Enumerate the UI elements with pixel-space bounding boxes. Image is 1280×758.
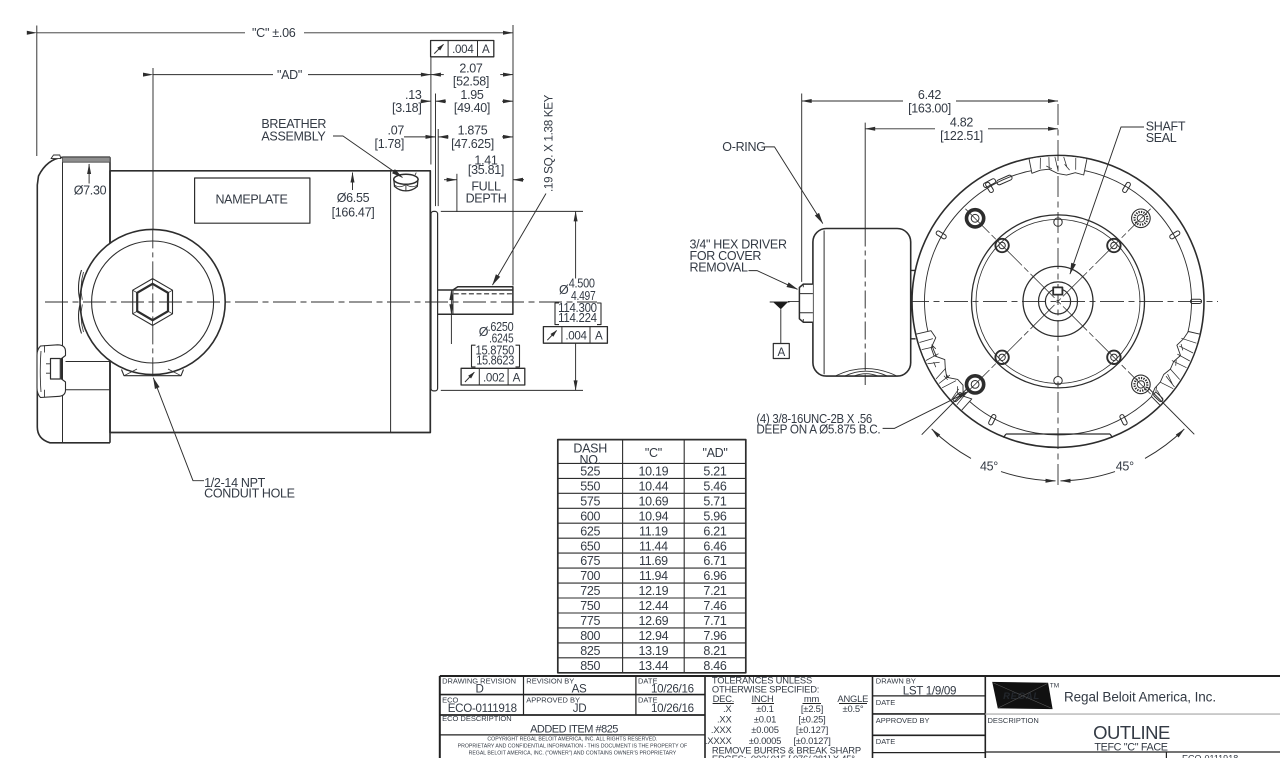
svg-text:12.94: 12.94: [639, 629, 669, 643]
svg-text:550: 550: [580, 479, 600, 493]
fcf perpendicularity top: [431, 41, 494, 57]
tolerance header underlines: [713, 703, 867, 705]
rim vent slots: [935, 182, 1201, 426]
extension line 1.41: [456, 174, 458, 212]
dia 6.55 arrow: [352, 173, 354, 191]
svg-text:7.21: 7.21: [703, 584, 726, 598]
bolt hole leader: [883, 391, 969, 428]
endbell joint line: [390, 171, 392, 433]
SIDE VIEW GROUP: [37, 155, 597, 443]
svg-text:8.46: 8.46: [703, 659, 726, 673]
logo column divider gray: [985, 713, 1280, 715]
svg-text:ECO DESCRIPTION: ECO DESCRIPTION: [442, 714, 512, 723]
dimension .13: [421, 100, 431, 102]
extension line C left: [36, 26, 38, 157]
svg-text:[±0.127]: [±0.127]: [796, 724, 828, 735]
svg-text:625: 625: [580, 524, 600, 538]
svg-text:O-RING: O-RING: [722, 140, 765, 154]
extension line shaft end: [512, 25, 514, 286]
svg-text:8.21: 8.21: [703, 644, 726, 658]
svg-text:12.44: 12.44: [639, 599, 669, 613]
TABLE GROUP: [558, 440, 746, 673]
key leader: [493, 194, 547, 286]
svg-text:±0.1: ±0.1: [756, 703, 773, 714]
tolerances block: [705, 675, 868, 758]
regal logo: [992, 682, 1059, 709]
svg-text:7.96: 7.96: [703, 629, 726, 643]
c-face inner circle: [976, 219, 1140, 383]
cast texture patch bottom-left: [917, 331, 972, 410]
conduit hole leader: [153, 378, 204, 481]
extension line box left: [801, 94, 803, 282]
dimension AD: [153, 74, 273, 76]
svg-text:825: 825: [580, 644, 600, 658]
dimension C: [37, 32, 245, 34]
svg-text:EDGES: .003/.015 [.076/.381]: EDGES: .003/.015 [.076/.381] X 45°: [712, 753, 855, 758]
svg-text:1.875: 1.875: [458, 124, 488, 138]
fan cover corner clip: [51, 155, 61, 159]
svg-text:[166.47]: [166.47]: [332, 206, 375, 220]
svg-text:12.69: 12.69: [639, 614, 669, 628]
svg-text:DATE: DATE: [876, 737, 895, 746]
svg-text:[3.18]: [3.18]: [392, 101, 421, 115]
drawn-by column row lines: [873, 695, 986, 697]
svg-text:11.19: 11.19: [639, 524, 668, 538]
pilot vertical dimension: [575, 211, 577, 278]
seal circle: [1039, 282, 1078, 321]
bolt hole lower-left: [967, 376, 984, 393]
45 degree dimension arcs: [932, 429, 971, 458]
dimension 6.42: [802, 100, 903, 102]
svg-text:"C" ±.06: "C" ±.06: [252, 26, 296, 40]
svg-text:45°: 45°: [980, 460, 998, 474]
dimension .07: [404, 136, 436, 138]
svg-text:.002: .002: [483, 371, 504, 384]
o-ring leader: [764, 147, 823, 224]
svg-text:OUTLINE: OUTLINE: [1093, 722, 1170, 743]
nameplate: [195, 178, 310, 223]
TITLEBLOCK GROUP: [440, 675, 1280, 758]
description bottom line: [985, 751, 1280, 753]
svg-text:COPYRIGHT REGAL BELOIT AMERICA: COPYRIGHT REGAL BELOIT AMERICA, INC. ALL…: [487, 737, 657, 743]
extension line flange face: [430, 58, 432, 165]
pilot dim extension bottom: [441, 389, 583, 391]
svg-text:11.44: 11.44: [639, 539, 668, 553]
fan cover right joint line: [109, 157, 111, 443]
svg-text:DESCRIPTION: DESCRIPTION: [988, 716, 1039, 725]
svg-text:REMOVAL: REMOVAL: [690, 260, 748, 274]
svg-text:REGAL BELOIT AMERICA, INC. ("O: REGAL BELOIT AMERICA, INC. ("OWNER") AND…: [469, 750, 677, 756]
clamp band lines: [66, 362, 111, 390]
face screw hole lower-right: [1107, 351, 1120, 364]
dimension 1.875: [438, 136, 448, 138]
svg-text:"AD": "AD": [702, 446, 727, 460]
svg-text:SEAL: SEAL: [1146, 131, 1177, 145]
hex plug inner: [137, 284, 168, 320]
svg-text:AS: AS: [572, 683, 587, 696]
extension line c-face plane: [864, 123, 866, 385]
svg-text:4.82: 4.82: [950, 116, 973, 130]
flange pilot ring: [431, 211, 438, 391]
base pad chord: [1003, 434, 1112, 438]
svg-text:CONDUIT HOLE: CONDUIT HOLE: [204, 486, 295, 500]
svg-text:"AD": "AD": [277, 68, 302, 82]
svg-text:TM: TM: [1050, 683, 1059, 690]
svg-text:JD: JD: [573, 702, 587, 715]
extension line 1.95: [435, 94, 437, 207]
shaft step line: [452, 290, 454, 314]
svg-text:.XXX: .XXX: [711, 724, 733, 735]
svg-text:6.71: 6.71: [703, 554, 726, 568]
bc tapped holes top/bottom: [1054, 218, 1062, 226]
dash table row lines: [558, 462, 746, 464]
svg-text:[163.00]: [163.00]: [908, 101, 951, 115]
hex plug outer: [133, 279, 173, 326]
svg-text:ASSEMBLY: ASSEMBLY: [261, 129, 326, 143]
centerline horizontal: [788, 300, 1218, 302]
fcf runout pilot: [543, 327, 607, 344]
svg-text:12.19: 12.19: [639, 584, 669, 598]
svg-text:10.94: 10.94: [639, 509, 669, 523]
svg-text:TEFC "C" FACE: TEFC "C" FACE: [1094, 742, 1167, 754]
svg-text:[35.81]: [35.81]: [468, 163, 504, 177]
svg-text:A: A: [513, 371, 521, 384]
svg-text:10.44: 10.44: [639, 479, 669, 493]
seal boss circle: [1023, 266, 1093, 336]
breather leader: [333, 136, 403, 178]
dimension 4.82: [865, 128, 935, 130]
svg-text:525: 525: [580, 465, 600, 479]
FRONT VIEW DIMENSIONS: [690, 88, 1195, 481]
lifting lug bars: [983, 178, 997, 188]
svg-text:5.71: 5.71: [703, 494, 726, 508]
svg-text:45°: 45°: [1116, 460, 1134, 474]
title block verticals: [523, 676, 525, 715]
face screw hole upper-right: [1107, 239, 1120, 252]
svg-text:ADDED ITEM #825: ADDED ITEM #825: [530, 723, 618, 735]
svg-text:[49.40]: [49.40]: [454, 101, 490, 115]
svg-text:Ø7.30: Ø7.30: [74, 184, 107, 198]
dash table outer border: [558, 440, 746, 673]
FRONT VIEW GROUP: [788, 104, 1218, 487]
svg-text:Ø6.55: Ø6.55: [337, 191, 370, 205]
svg-text:±0.5°: ±0.5°: [843, 703, 864, 714]
fan cover outline: [37, 157, 110, 443]
cast texture patch bottom-right: [1152, 332, 1200, 406]
svg-text:575: 575: [580, 494, 600, 508]
svg-text:650: 650: [580, 539, 600, 553]
hex plug corner facets: [133, 279, 173, 326]
shaft circle: [1045, 289, 1070, 314]
svg-text:±0.005: ±0.005: [751, 724, 778, 735]
svg-text:D: D: [475, 683, 483, 696]
svg-text:675: 675: [580, 554, 600, 568]
pilot diameter text: [558, 276, 597, 325]
dimension 1.95: [436, 100, 447, 102]
conduit box cover edge: [823, 231, 825, 375]
vertical centerline conduit box: [152, 229, 154, 378]
centerline vertical: [1057, 104, 1059, 487]
svg-text:[52.58]: [52.58]: [453, 75, 489, 89]
fan cover outer circle: [912, 155, 1204, 447]
motor body frame: [110, 171, 430, 433]
svg-text:±0.01: ±0.01: [754, 713, 776, 724]
svg-text:Regal Beloit America, Inc.: Regal Beloit America, Inc.: [1064, 689, 1216, 704]
svg-text:750: 750: [580, 599, 600, 613]
hex driver: [799, 284, 813, 322]
svg-text:600: 600: [580, 509, 600, 523]
svg-text:10/26/16: 10/26/16: [651, 683, 694, 696]
hex driver label: [690, 237, 787, 274]
svg-text:[122.51]: [122.51]: [940, 129, 983, 143]
svg-text:2.07: 2.07: [459, 61, 482, 75]
pilot mm brackets: [555, 303, 601, 325]
row1 labels: [442, 676, 694, 756]
svg-text:"C": "C": [645, 446, 662, 460]
svg-text:800: 800: [580, 629, 600, 643]
title block top border: [440, 675, 1280, 677]
svg-text:725: 725: [580, 584, 600, 598]
keyway: [1053, 287, 1062, 294]
conduit box neck: [911, 270, 916, 338]
svg-text:5.21: 5.21: [703, 465, 726, 479]
svg-text:.004: .004: [565, 330, 587, 343]
svg-text:ECO-0111918: ECO-0111918: [448, 702, 517, 715]
svg-text:DATE: DATE: [876, 698, 895, 707]
svg-text:15.8623: 15.8623: [476, 354, 514, 368]
conduit box cover circle: [92, 241, 214, 363]
svg-text:DEEP ON A Ø5.875 B.C.: DEEP ON A Ø5.875 B.C.: [756, 422, 880, 436]
breather assembly hex: [394, 173, 418, 191]
drawn by column: [876, 676, 956, 746]
conduit box bottom flat: [122, 370, 184, 376]
bolt hole upper-right threaded: [1132, 209, 1151, 228]
face screw hole upper-left: [995, 239, 1008, 252]
svg-text:7.46: 7.46: [703, 599, 726, 613]
svg-text:5.46: 5.46: [703, 479, 726, 493]
conduit box side: [813, 229, 911, 377]
svg-text:10.19: 10.19: [639, 465, 669, 479]
svg-text:6.21: 6.21: [703, 524, 726, 538]
conduit box turning marks: [836, 369, 896, 377]
keyseat hidden line: [454, 293, 512, 295]
svg-text:13.44: 13.44: [639, 659, 669, 673]
conduit box ears left: [78, 270, 81, 334]
svg-text:850: 850: [580, 659, 600, 673]
title block left border: [439, 676, 441, 758]
svg-text:6.42: 6.42: [918, 88, 941, 102]
c-face outer circle: [972, 215, 1145, 388]
svg-text:[1.78]: [1.78]: [375, 137, 404, 151]
svg-text:A: A: [482, 43, 490, 56]
svg-text:1.95: 1.95: [460, 88, 483, 102]
svg-text:.19 SQ. X 1.38 KEY: .19 SQ. X 1.38 KEY: [543, 94, 556, 192]
shaft diameter text: [476, 320, 515, 367]
svg-text:5.96: 5.96: [703, 509, 726, 523]
fan cover top band: [63, 157, 111, 162]
conduit box outer circle: [80, 229, 225, 374]
shaft seal leader: [1070, 127, 1144, 274]
svg-text:.13: .13: [405, 88, 422, 102]
svg-text:13.19: 13.19: [639, 644, 669, 658]
title block row lines left: [440, 694, 705, 696]
svg-text:NAMEPLATE: NAMEPLATE: [215, 192, 287, 206]
SIDE VIEW DIMENSIONS: [37, 25, 608, 500]
latch inner plate: [51, 359, 61, 380]
dimension 1.41 full depth: [444, 179, 457, 181]
svg-text:A: A: [595, 330, 603, 343]
svg-text:.07: .07: [388, 124, 405, 138]
face screw hole lower-left: [995, 351, 1008, 364]
svg-text:Ø: Ø: [559, 283, 569, 297]
shaft: [438, 290, 513, 314]
pilot dim extension top: [441, 210, 583, 212]
rim inner circle: [925, 168, 1192, 435]
hex driver leader: [749, 271, 798, 290]
dash table column lines: [622, 440, 624, 673]
svg-text:[47.625]: [47.625]: [451, 137, 494, 151]
svg-text:REGAL: REGAL: [1003, 691, 1040, 702]
bottom right cell divider: [1165, 752, 1167, 758]
svg-text:7.71: 7.71: [703, 614, 726, 628]
bolt hole upper-left: [967, 210, 984, 227]
svg-text:11.69: 11.69: [639, 554, 668, 568]
svg-text:.X: .X: [723, 703, 732, 714]
svg-text:6.96: 6.96: [703, 569, 726, 583]
45 dim extension lines: [922, 387, 969, 435]
fcf runout shaft: [461, 368, 525, 385]
svg-text:[±0.25]: [±0.25]: [798, 713, 825, 724]
cast texture patch top: [1029, 156, 1087, 175]
svg-text:DEPTH: DEPTH: [466, 192, 507, 206]
svg-text:ECO-0111918: ECO-0111918: [1182, 754, 1238, 758]
svg-text:LST 1/9/09: LST 1/9/09: [903, 684, 957, 697]
dimension 2.07: [431, 74, 444, 76]
svg-text:.004: .004: [452, 43, 474, 56]
shaft mm brackets: [472, 345, 520, 367]
svg-text:A: A: [777, 346, 785, 359]
centerline diagonal 45: [965, 209, 1150, 394]
svg-text:10/26/16: 10/26/16: [651, 702, 694, 715]
svg-text:11.94: 11.94: [639, 569, 668, 583]
key: [453, 287, 513, 290]
latch handle assembly: [37, 345, 66, 398]
svg-text:REVISION BY: REVISION BY: [526, 676, 574, 685]
bolt hole lower-right threaded: [1132, 375, 1151, 394]
shaft diameter dimension: [450, 290, 452, 302]
svg-text:700: 700: [580, 569, 600, 583]
extension line AD left: [152, 68, 154, 230]
centerline diagonal 135: [965, 209, 1150, 394]
svg-text:APPROVED BY: APPROVED BY: [876, 716, 930, 725]
dia 7.30 arrow: [88, 164, 90, 184]
svg-text:6.46: 6.46: [703, 539, 726, 553]
svg-text:10.69: 10.69: [639, 494, 669, 508]
svg-text:775: 775: [580, 614, 600, 628]
svg-text:114.224: 114.224: [558, 311, 597, 325]
horizontal centerline left view: [45, 301, 597, 303]
svg-text:PROPRIETARY AND CONFIDENTIAL I: PROPRIETARY AND CONFIDENTIAL INFORMATION…: [458, 744, 688, 750]
svg-text:[±2.5]: [±2.5]: [801, 703, 823, 714]
datum A symbol: [770, 301, 790, 303]
latch inner lines: [40, 345, 50, 397]
svg-text:4.500: 4.500: [569, 276, 595, 290]
extension line 1.875: [437, 129, 439, 206]
svg-text:.XX: .XX: [717, 713, 732, 724]
fan cover front edge line: [62, 162, 64, 443]
